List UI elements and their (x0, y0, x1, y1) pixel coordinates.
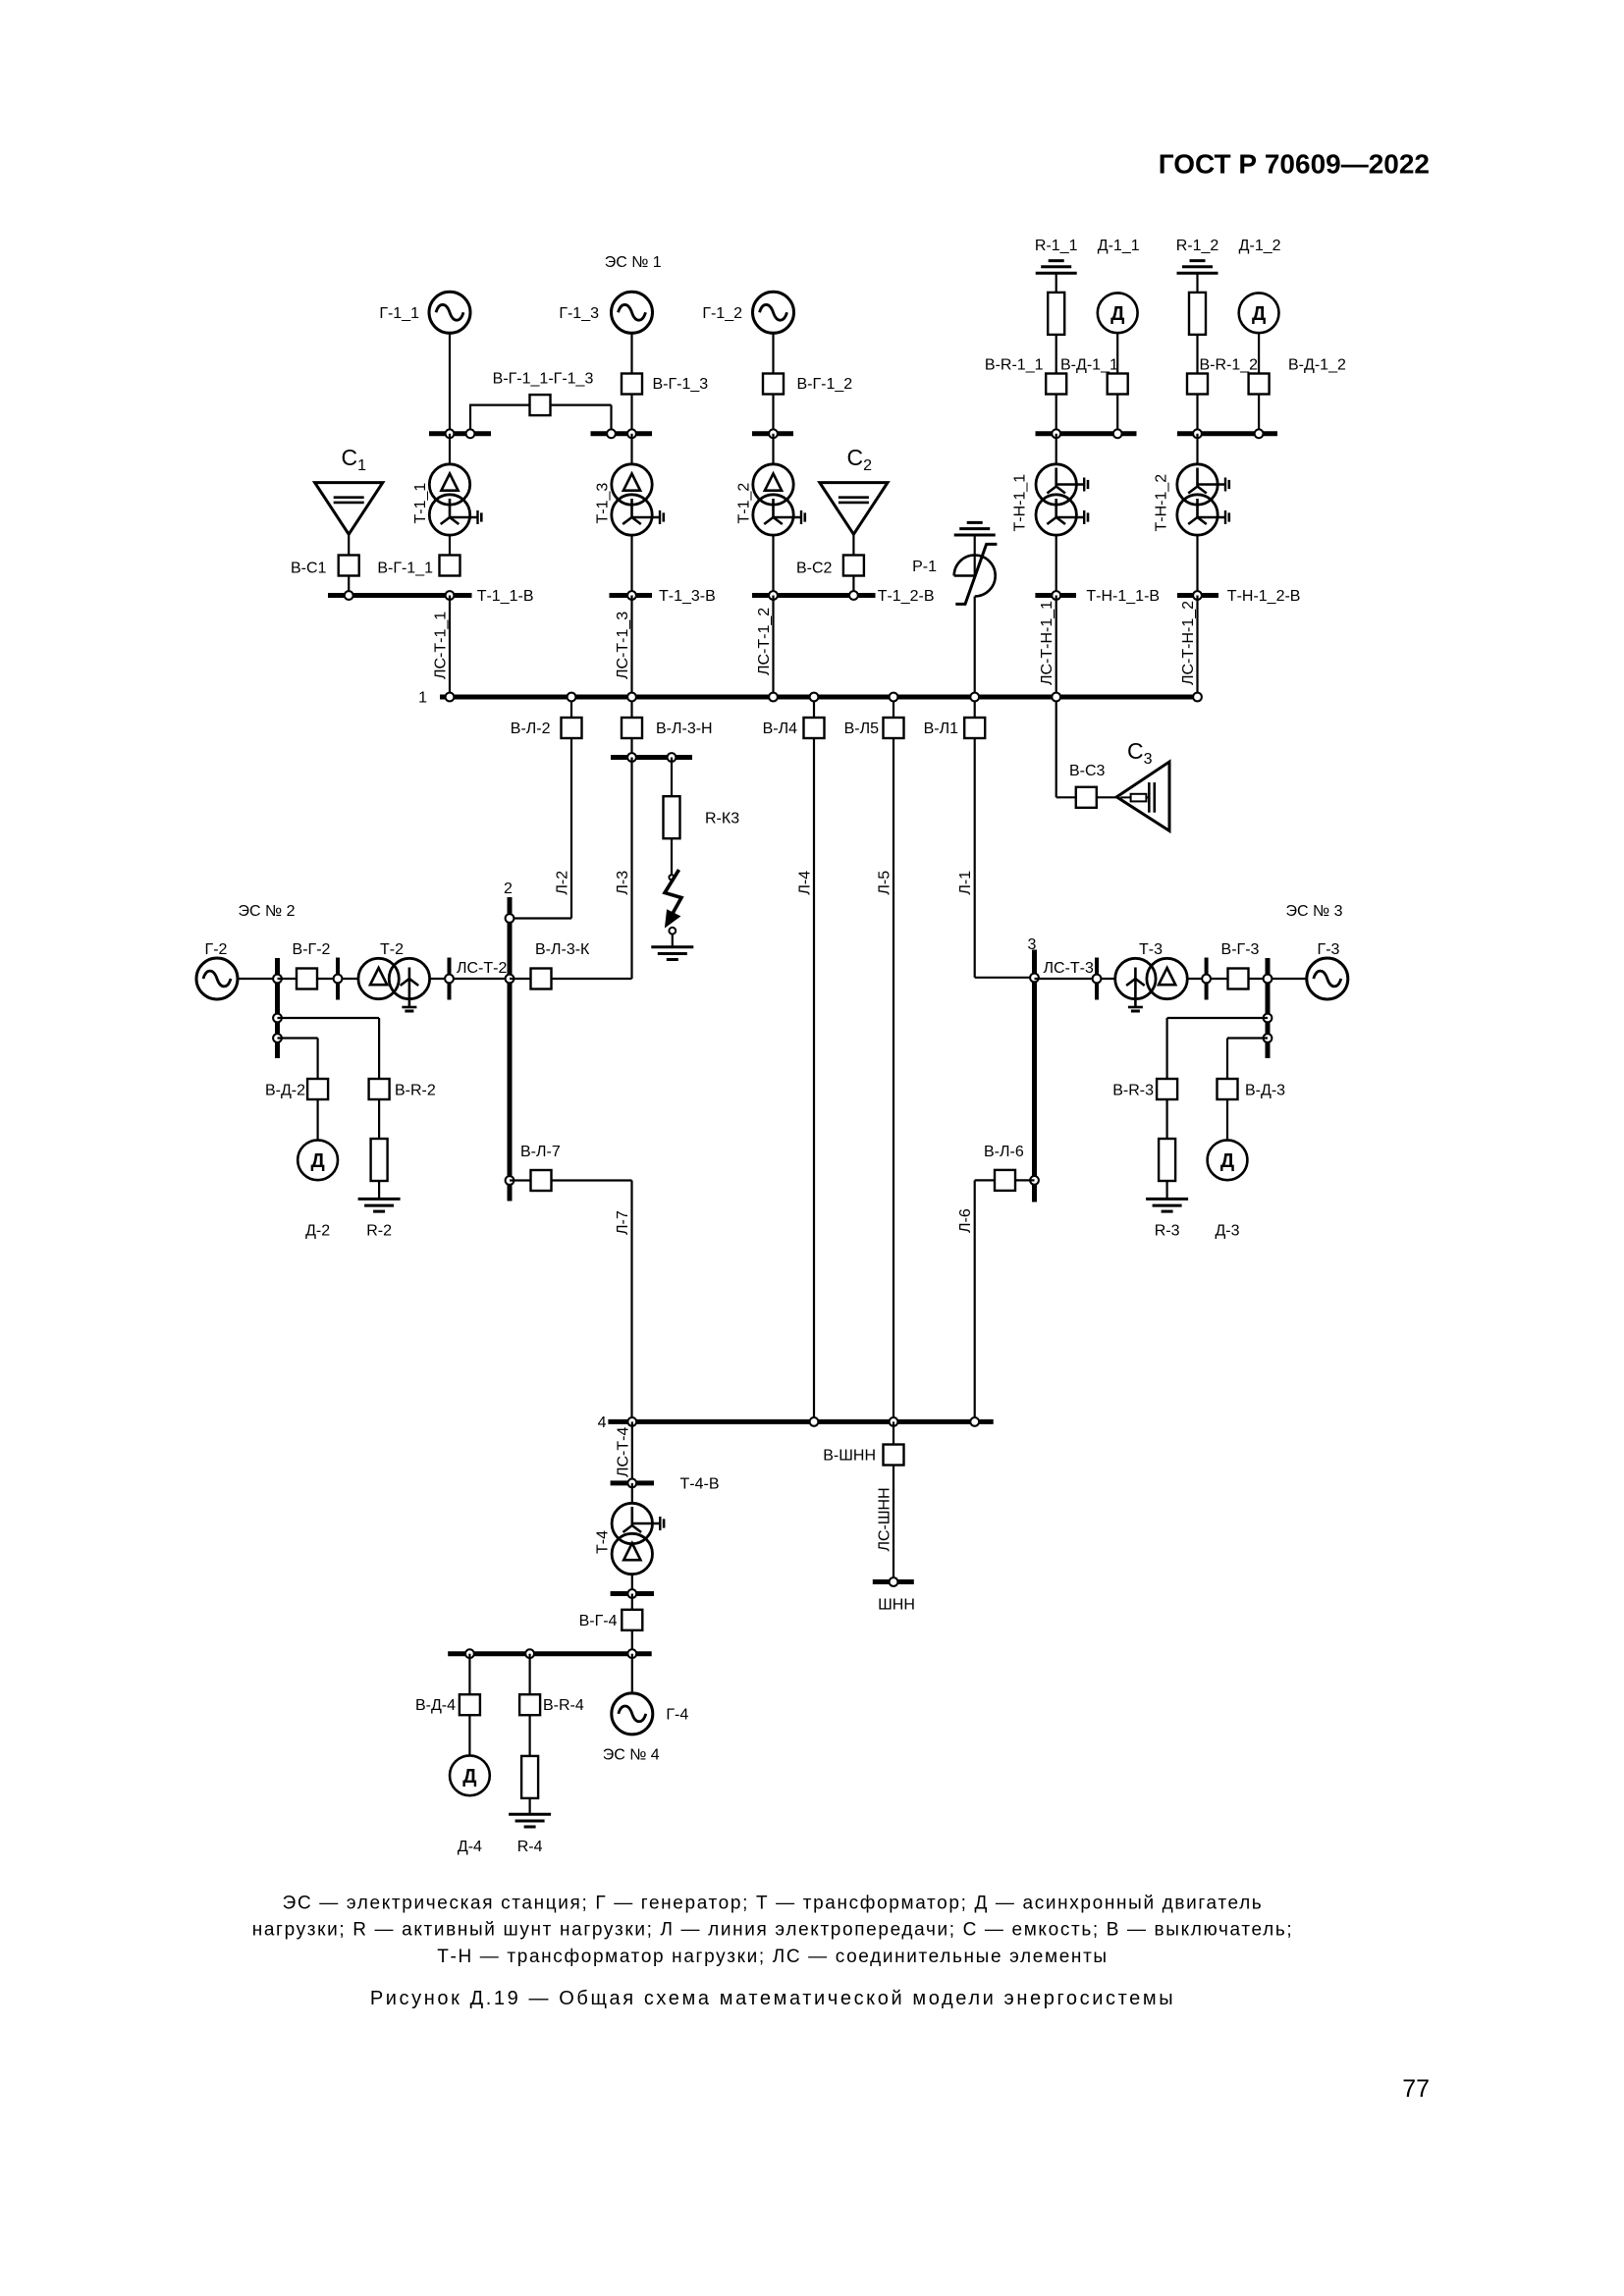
wire С2 to breaker (852, 534, 854, 555)
node ЭС2 junction b (334, 975, 343, 984)
label ЛС-ШНН (877, 1487, 893, 1551)
label Д-2 (305, 1223, 330, 1240)
wire В-R-3 to R-3 (1165, 1099, 1167, 1139)
wire Т-1_3 down (630, 535, 632, 595)
capacitor С3 (1116, 762, 1169, 830)
wire ЛС-Т-Н-1_1 (1056, 596, 1057, 698)
svg-text:В-Д-1_2: В-Д-1_2 (1288, 357, 1346, 374)
svg-text:Л-1: Л-1 (957, 871, 974, 895)
wire Т-Н-1_2 down (1196, 535, 1198, 595)
bus ШНН (873, 1579, 914, 1584)
label В-Г-4 (579, 1613, 618, 1629)
label Т-Н-1_2-В (1227, 588, 1301, 605)
svg-text:ЛС-Т-Н-1_2: ЛС-Т-Н-1_2 (1180, 601, 1197, 685)
motor Д-4 (450, 1755, 490, 1795)
ground above Р-1 (954, 522, 996, 535)
label В-R-1_1 (985, 357, 1044, 374)
breaker В-R-3 (1157, 1079, 1177, 1099)
wire to В-Г-4 (631, 1594, 633, 1610)
breaker В-Г-3 (1228, 969, 1249, 989)
wire Г-2 to bus (238, 978, 278, 980)
label ЛС-Т-4 (615, 1427, 631, 1477)
svg-text:Д: Д (1110, 303, 1124, 325)
svg-text:1: 1 (418, 690, 427, 707)
label В-R-3 (1112, 1083, 1154, 1099)
node R-1_2 load bus junctions (1193, 429, 1263, 438)
wire В-Д-4 to Д-4 (468, 1715, 470, 1755)
svg-text:Т-4: Т-4 (595, 1530, 612, 1554)
wire Т-4-В to Т-4 (631, 1483, 633, 1504)
wire ЛС-Т-Н-1_2 (1196, 596, 1198, 698)
transformer Т-3 (1115, 958, 1188, 1007)
transformer Т-1_3 (612, 464, 664, 535)
node Т-Н-1_2-В junction (1193, 591, 1202, 600)
wire Р-1 to bus 1 (974, 597, 976, 698)
wire Л-6 (975, 1180, 1035, 1421)
label R-К3 (705, 811, 739, 828)
breaker В-Л-7 (531, 1170, 552, 1191)
svg-text:Т-2: Т-2 (380, 941, 404, 958)
label node 4 (598, 1415, 607, 1431)
wire В-Л-3-Н drop (630, 697, 632, 718)
label R-2 (366, 1223, 392, 1240)
wire R-К3 down (671, 838, 673, 875)
svg-text:ЭС — электрическая станция; Г: ЭС — электрическая станция; Г — генерато… (283, 1894, 1264, 1914)
svg-text:ЛС-Т-4: ЛС-Т-4 (615, 1427, 631, 1477)
svg-text:ЭС № 4: ЭС № 4 (603, 1747, 660, 1764)
bus ЭС4 station bus (448, 1651, 652, 1656)
bus Г-1_1 unit bus (429, 431, 491, 436)
svg-text:Т-Н-1_2: Т-Н-1_2 (1154, 474, 1170, 532)
transformer Т-Н-1_1 (1036, 464, 1088, 535)
wire В-Л4 drop (813, 697, 815, 718)
svg-text:В-Л-3-Н: В-Л-3-Н (656, 721, 713, 737)
resistor R-1_1 (1048, 293, 1064, 335)
svg-text:Д: Д (1220, 1150, 1234, 1172)
wire Т-1_1 down (449, 535, 451, 555)
breaker В-Г-1_3 (622, 374, 642, 395)
label R-1_2 (1176, 238, 1219, 254)
tick ЭС3 a (1095, 958, 1099, 1000)
svg-text:R-1_2: R-1_2 (1176, 238, 1219, 254)
wire В-R-4 to R-4 (528, 1715, 530, 1756)
bus ЭС3 load bus (1266, 958, 1271, 1058)
label Г-3 (1318, 941, 1340, 958)
svg-text:В-Л-2: В-Л-2 (511, 721, 551, 737)
label В-Г-1_2 (797, 376, 853, 393)
svg-text:В-R-1_2: В-R-1_2 (1200, 357, 1259, 374)
svg-text:4: 4 (598, 1415, 607, 1431)
transformer Т-1_1 (429, 464, 481, 535)
label Г-1_3 (559, 305, 599, 322)
wire В-С3 to С3 (1097, 796, 1117, 798)
label В-R-1_2 (1200, 357, 1259, 374)
label Т-1_1-В (477, 588, 534, 605)
label ЭС № 4 (603, 1747, 660, 1764)
bus fault stub (611, 755, 692, 760)
svg-text:В-R-1_1: В-R-1_1 (985, 357, 1044, 374)
label ЛС-Т-2 (457, 960, 507, 977)
wire R-1_1 to breaker (1056, 335, 1057, 374)
wire R-3 to ground (1165, 1181, 1167, 1199)
wire В-Л1 drop (974, 697, 976, 718)
label В-Г-1_1-Г-1_3 (493, 371, 594, 388)
node Т-4-В junction (627, 1479, 636, 1488)
svg-text:R-4: R-4 (517, 1839, 543, 1855)
svg-text:R-К3: R-К3 (705, 811, 739, 828)
wire ЛС-Т-1_2 (772, 596, 774, 698)
svg-text:ЭС № 2: ЭС № 2 (238, 903, 295, 920)
svg-text:В-Д-3: В-Д-3 (1245, 1083, 1285, 1099)
svg-text:Д: Д (1252, 303, 1266, 325)
svg-text:В-Л-7: В-Л-7 (520, 1144, 561, 1160)
label В-Д-3 (1245, 1083, 1285, 1099)
wire R-1_2 to breaker (1196, 335, 1198, 374)
svg-text:Д: Д (462, 1766, 476, 1788)
generator Г-4 (612, 1693, 653, 1735)
transformer Т-Н-1_2 (1177, 464, 1229, 535)
label В-Л1 (924, 721, 959, 737)
short-circuit arrow (665, 870, 681, 928)
breaker В-Л-3-Н (622, 718, 642, 738)
ground above R-1_2 (1177, 261, 1218, 294)
wire Т-3 to В-Г-3 (1187, 978, 1227, 980)
label В-Л-3-К (535, 941, 590, 958)
reactor Р-1 (954, 535, 998, 604)
wire Г-1_3 to breaker (630, 333, 632, 373)
breaker В-Г-4 (622, 1610, 642, 1630)
svg-text:Т-Н-1_1: Т-Н-1_1 (1012, 474, 1029, 532)
label В-R-4 (543, 1697, 584, 1714)
label Г-1_1 (379, 305, 419, 322)
svg-text:Г-3: Г-3 (1318, 941, 1340, 958)
wire В-R-2 to R-2 (378, 1099, 380, 1139)
svg-text:Д: Д (310, 1150, 324, 1172)
label Т-1_2-В (878, 588, 935, 605)
breaker В-Л-2 (562, 718, 582, 738)
ground R-2 (358, 1199, 401, 1211)
wire В-Д-1_1 to bus (1116, 395, 1118, 434)
label Т-3 (1139, 941, 1163, 958)
svg-text:Т-1_2: Т-1_2 (735, 483, 752, 524)
svg-text:Д-4: Д-4 (458, 1839, 482, 1855)
tick ЭС3 b (1205, 958, 1209, 1000)
svg-text:Рисунок Д.19 — Общая схема мат: Рисунок Д.19 — Общая схема математическо… (370, 1988, 1175, 2009)
label В-ШНН (823, 1448, 876, 1465)
label Р-1 (912, 559, 937, 575)
svg-text:Г-1_1: Г-1_1 (379, 305, 419, 322)
breaker В-Г-1_1 (440, 556, 460, 576)
label Г-4 (666, 1707, 688, 1724)
node Г-1_1 bus junctions (446, 429, 475, 438)
svg-text:В-Г-1_1-Г-1_3: В-Г-1_1-Г-1_3 (493, 371, 594, 388)
label Л-1 (957, 871, 974, 895)
label Л-6 (957, 1208, 974, 1233)
breaker В-Г-2 (297, 969, 317, 989)
breaker В-Г-1_1-Г-1_3 (530, 395, 551, 415)
svg-text:Л-4: Л-4 (797, 871, 814, 895)
ground Т-2 (402, 1007, 416, 1011)
svg-text:Т-Н — трансформатор нагрузки;: Т-Н — трансформатор нагрузки; ЛС — соеди… (437, 1947, 1108, 1967)
wire bus to Т-Н-1_2 (1196, 434, 1198, 464)
label Л-7 (615, 1210, 631, 1235)
svg-text:В-Л1: В-Л1 (924, 721, 959, 737)
svg-text:В-Л5: В-Л5 (844, 721, 880, 737)
breaker В-С1 (339, 556, 359, 576)
node ЭС3 junction a (1093, 975, 1102, 984)
svg-text:нагрузки; R — активный шунт на: нагрузки; R — активный шунт нагрузки; Л … (252, 1920, 1294, 1941)
svg-text:В-Г-3: В-Г-3 (1221, 941, 1260, 958)
node ЭС3 load junctions (1264, 1014, 1272, 1042)
svg-text:2: 2 (504, 881, 513, 897)
svg-text:ЭС № 3: ЭС № 3 (1285, 903, 1342, 920)
svg-text:Т-1_3-В: Т-1_3-В (659, 588, 716, 605)
wire ЭС2 bus to В-Г-2 (278, 978, 298, 980)
wire В-R-1_1 to bus (1056, 395, 1057, 434)
svg-text:ЛС-ШНН: ЛС-ШНН (877, 1487, 893, 1551)
legend line 1 (283, 1894, 1264, 1914)
svg-text:В-Л-6: В-Л-6 (984, 1144, 1024, 1160)
svg-text:В-R-3: В-R-3 (1112, 1083, 1154, 1099)
wire Л-1 (975, 738, 1035, 978)
svg-text:Р-1: Р-1 (912, 559, 937, 575)
node ШНН junction (890, 1577, 898, 1586)
wire Т-1_2 down (772, 535, 774, 595)
bus ЭС2 load bus (275, 958, 280, 1058)
page header text ГОСТ Р 70609—2022 (1159, 149, 1430, 180)
node Г-1_2 bus junction (769, 429, 778, 438)
breaker В-Д-2 (307, 1079, 328, 1099)
node bus 2 junctions (506, 914, 514, 1185)
figure caption (370, 1988, 1175, 2009)
svg-text:Г-1_2: Г-1_2 (702, 305, 742, 322)
tick ЭС2 a (336, 958, 340, 1000)
label В-Г-1_1 (377, 561, 433, 577)
wire Л-2 (510, 738, 571, 919)
svg-text:ЛС-Т-1_3: ЛС-Т-1_3 (615, 612, 631, 679)
label В-Д-2 (265, 1083, 305, 1099)
svg-text:R-2: R-2 (366, 1223, 392, 1240)
transformer Т-1_2 (753, 464, 805, 535)
wire В-Г-2 to tick (317, 978, 358, 980)
wire Л-5 (893, 738, 894, 1421)
label R-3 (1155, 1223, 1180, 1240)
ground above R-1_1 (1036, 261, 1077, 294)
wire stub to R-К3 (671, 758, 673, 798)
svg-text:Т-1_1: Т-1_1 (412, 483, 429, 524)
node Т-1_3-В junction (627, 591, 636, 600)
tick ЭС2 b (448, 958, 452, 1000)
wire В-R-1_2 to bus (1196, 395, 1198, 434)
label Д-1_1 (1098, 238, 1140, 254)
bus 4 (608, 1419, 993, 1424)
svg-text:ЛС-Т-Н-1_1: ЛС-Т-Н-1_1 (1039, 601, 1056, 685)
wire ЛС-Т-1_3 (630, 596, 632, 698)
label ЛС-Т-1_2 (756, 608, 773, 675)
svg-text:В-Л-3-К: В-Л-3-К (535, 941, 590, 958)
resistor R-4 (521, 1756, 538, 1798)
motor Д-1_1 (1098, 293, 1138, 333)
label В-Г-3 (1221, 941, 1260, 958)
wire bus to Г-4 (631, 1654, 633, 1694)
label ЛС-Т-Н-1_2 (1180, 601, 1197, 685)
breaker В-Д-4 (460, 1694, 480, 1715)
node ЭС4 bus junctions (465, 1649, 636, 1658)
svg-text:Д-3: Д-3 (1215, 1223, 1239, 1240)
wire Т-Н-1_1 down (1056, 535, 1057, 595)
label R-1_1 (1035, 238, 1078, 254)
label Л-4 (797, 871, 814, 895)
label Д-4 (458, 1839, 482, 1855)
node Т-1_2-В junctions (769, 591, 858, 600)
svg-text:Т-1_2-В: Т-1_2-В (878, 588, 935, 605)
node ЭС3 junction b (1202, 975, 1211, 984)
label В-Г-1_3 (653, 376, 709, 393)
label В-Д-1_2 (1288, 357, 1346, 374)
bus Г-1_2 unit bus (752, 431, 793, 436)
bus 2 (508, 897, 513, 1201)
breaker В-R-1_2 (1187, 374, 1208, 395)
wire to В-R-2 (278, 1018, 380, 1079)
label Т-1_2 (735, 483, 752, 524)
svg-text:R-3: R-3 (1155, 1223, 1180, 1240)
wire to В-Д-3 (1227, 1039, 1268, 1080)
bus Т-4-В (611, 1480, 654, 1485)
bus Т-1_2-В (752, 593, 876, 598)
label ЛС-Т-Н-1_1 (1039, 601, 1056, 685)
wire В-Г-4 to bus (631, 1630, 633, 1654)
label Т-1_3-В (659, 588, 716, 605)
wire В-Л-3-Н to fault bus (630, 738, 632, 758)
wire В-Л-3-К to bus 2 (510, 978, 531, 980)
wire С1 to breaker (348, 534, 350, 555)
bus 1 (440, 695, 1200, 700)
wire В-Г-1_2 to bus (772, 395, 774, 434)
label node 3 (1028, 936, 1037, 953)
node R-1_1 load bus junctions (1052, 429, 1121, 438)
page number 77 (1402, 2075, 1430, 2103)
label В-С1 (291, 561, 327, 577)
label В-Л-2 (511, 721, 551, 737)
label В-Д-1_1 (1060, 357, 1118, 374)
label Г-2 (205, 941, 228, 958)
label В-Л5 (844, 721, 880, 737)
label В-Л-6 (984, 1144, 1024, 1160)
ground R-3 (1146, 1199, 1188, 1211)
wire В-Г-1_3 to bus (630, 395, 632, 434)
node fault stub junctions (627, 753, 676, 762)
breaker В-С3 (1076, 787, 1097, 808)
breaker В-Д-3 (1218, 1079, 1238, 1099)
breaker В-Д-1_2 (1249, 374, 1270, 395)
wire Т-2 to tick (430, 978, 510, 980)
resistor R-1_2 (1189, 293, 1206, 335)
node fault bottom circle (669, 928, 676, 934)
svg-text:Т-3: Т-3 (1139, 941, 1163, 958)
svg-text:Д-2: Д-2 (305, 1223, 330, 1240)
label node 1 (418, 690, 427, 707)
breaker В-Г-1_2 (763, 374, 784, 395)
wire bus to Т-1_3 (630, 434, 632, 464)
node ЭС2 junction c (445, 975, 454, 984)
bus 3 (1032, 950, 1037, 1202)
wire tie left riser (470, 404, 530, 434)
bus Т-1_3-В (610, 593, 653, 598)
wire Г-1_2 to breaker (772, 333, 774, 373)
label node 2 (504, 881, 513, 897)
label Л-2 (555, 871, 571, 895)
wire В-С1 to bus (348, 576, 350, 596)
breaker В-Л5 (884, 718, 904, 738)
svg-text:В-С3: В-С3 (1069, 763, 1106, 779)
svg-text:В-Д-4: В-Д-4 (415, 1697, 456, 1714)
wire R-4 to ground (528, 1798, 530, 1814)
node Т-1_1-В junctions (345, 591, 455, 600)
svg-text:ШНН: ШНН (878, 1597, 915, 1614)
breaker В-R-2 (369, 1079, 390, 1099)
svg-text:Л-5: Л-5 (877, 871, 893, 895)
label Л-3 (615, 871, 631, 895)
svg-text:ЛС-Т-1_2: ЛС-Т-1_2 (756, 608, 773, 675)
label В-Д-4 (415, 1697, 456, 1714)
breaker В-Д-1_1 (1108, 374, 1128, 395)
svg-text:ГОСТ Р 70609—2022: ГОСТ Р 70609—2022 (1159, 149, 1430, 180)
legend line 2 (252, 1920, 1294, 1941)
breaker В-Л4 (804, 718, 825, 738)
bus Т-Н-1_1-В (1035, 593, 1076, 598)
legend line 3 (437, 1947, 1108, 1967)
label Т-Н-1_1 (1012, 474, 1029, 532)
wire В-Л5 drop (893, 697, 894, 718)
svg-text:В-С1: В-С1 (291, 561, 327, 577)
svg-text:В-Г-1_3: В-Г-1_3 (653, 376, 709, 393)
label В-R-2 (395, 1083, 436, 1099)
svg-text:ЛС-Т-1_1: ЛС-Т-1_1 (433, 612, 450, 679)
generator Г-1_3 (612, 292, 653, 333)
svg-text:Л-7: Л-7 (615, 1210, 631, 1235)
svg-text:ЛС-Т-3: ЛС-Т-3 (1044, 960, 1094, 977)
wire В-Д-1_2 to bus (1258, 395, 1260, 434)
svg-text:В-ШНН: В-ШНН (823, 1448, 876, 1465)
wire bus 4 to В-ШНН (893, 1421, 894, 1444)
label С1 (342, 445, 367, 474)
svg-text:В-Г-1_1: В-Г-1_1 (377, 561, 433, 577)
svg-text:В-R-2: В-R-2 (395, 1083, 436, 1099)
wire to В-Д-2 (278, 1039, 318, 1080)
wire bus to Т-Н-1_1 (1056, 434, 1057, 464)
svg-text:Д-1_2: Д-1_2 (1239, 238, 1281, 254)
breaker В-ШНН (884, 1445, 904, 1466)
wire Л-7 (510, 1181, 632, 1422)
bus R-1_1 load bus (1036, 431, 1137, 436)
capacitor С2 (820, 483, 888, 535)
label Т-2 (380, 941, 404, 958)
svg-text:Д-1_1: Д-1_1 (1098, 238, 1140, 254)
bus Г-1_3 unit bus (591, 431, 653, 436)
generator Г-1_1 (429, 292, 470, 333)
label ЛС-Т-3 (1044, 960, 1094, 977)
transformer Т-4 (612, 1503, 664, 1574)
bus Т-4 lower tick (611, 1591, 654, 1596)
wire to В-R-4 (528, 1654, 530, 1695)
breaker В-R-4 (519, 1694, 540, 1715)
wire В-Л-2 drop (570, 697, 572, 718)
svg-text:Г-1_3: Г-1_3 (559, 305, 599, 322)
node bus 1 junctions (446, 693, 1202, 702)
svg-text:В-С2: В-С2 (796, 561, 833, 577)
breaker В-Л1 (964, 718, 985, 738)
wire ЛС-ШНН (893, 1466, 894, 1582)
